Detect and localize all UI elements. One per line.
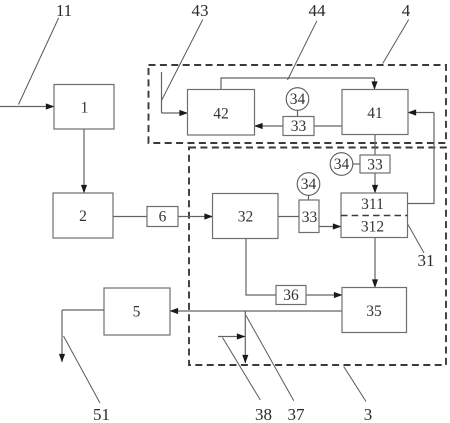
svg-text:41: 41 <box>367 105 383 122</box>
svg-text:32: 32 <box>238 209 254 226</box>
svg-text:3: 3 <box>364 405 373 423</box>
svg-text:43: 43 <box>192 1 209 20</box>
svg-text:44: 44 <box>309 1 327 20</box>
svg-text:33: 33 <box>367 157 383 174</box>
svg-text:5: 5 <box>133 304 141 321</box>
svg-text:312: 312 <box>361 219 384 236</box>
svg-text:36: 36 <box>283 287 299 304</box>
svg-text:34: 34 <box>334 156 350 173</box>
svg-text:34: 34 <box>301 176 317 193</box>
svg-text:35: 35 <box>366 303 382 320</box>
svg-text:33: 33 <box>291 118 307 135</box>
svg-text:11: 11 <box>56 1 72 20</box>
svg-text:33: 33 <box>302 209 318 226</box>
svg-text:51: 51 <box>93 405 110 423</box>
svg-text:34: 34 <box>290 91 306 108</box>
svg-text:2: 2 <box>79 208 87 225</box>
svg-text:42: 42 <box>213 106 229 123</box>
svg-text:37: 37 <box>288 405 306 423</box>
svg-text:4: 4 <box>402 1 411 20</box>
svg-text:1: 1 <box>81 100 89 117</box>
svg-text:31: 31 <box>418 251 435 270</box>
svg-text:38: 38 <box>255 405 272 423</box>
svg-text:6: 6 <box>159 209 167 226</box>
svg-text:311: 311 <box>361 196 384 213</box>
